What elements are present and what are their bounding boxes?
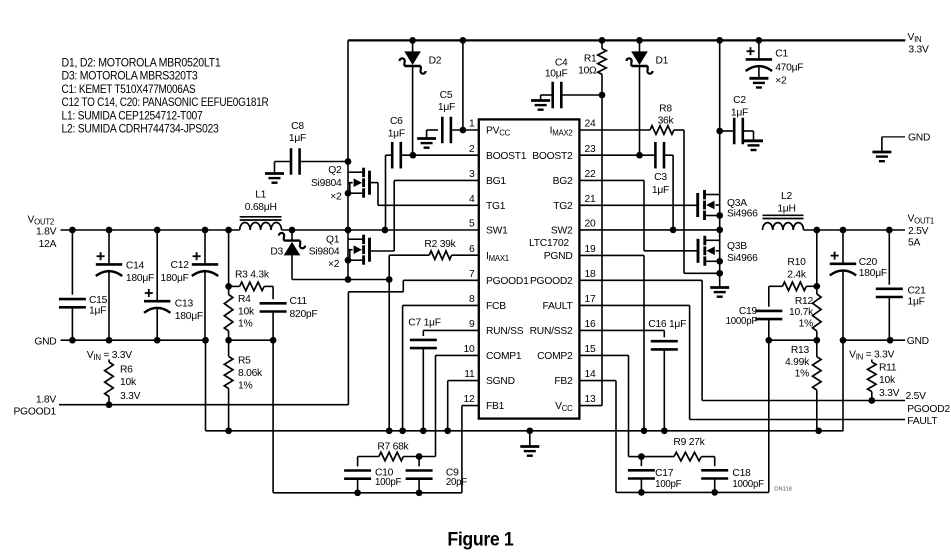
wire pin3 BG1 [394,179,479,181]
svg-text:2: 2 [469,144,475,155]
wire pin20 SW2 [579,227,723,234]
wire FB1 bottom line [273,489,462,496]
svg-text:20pF: 20pF [446,477,467,488]
wire pin15 COMP2 [579,355,628,456]
svg-text:R6: R6 [120,365,133,376]
C13 value label [175,298,203,322]
wire R7 left to C10 [358,457,379,467]
VIN label right [849,350,894,362]
capacitor C12 [192,230,218,340]
svg-text:R7 68k: R7 68k [377,442,409,453]
svg-text:PGOOD1: PGOOD1 [13,406,56,417]
VIN top right labels [908,32,929,56]
svg-text:13: 13 [585,394,596,405]
C1 value label [775,49,803,87]
Q3B body lead [716,250,720,252]
D2 label [429,55,442,66]
parts list note [62,56,269,136]
svg-text:Q1: Q1 [326,235,340,246]
svg-text:R12: R12 [795,296,814,307]
svg-text:8: 8 [469,294,475,305]
C6 value label [388,116,405,140]
ground C8 [265,174,284,183]
PGOOD2 labels [906,391,951,415]
capacitor C8 [291,148,300,175]
svg-text:Q3B: Q3B [727,241,747,252]
Q3B label [727,241,758,264]
svg-text:1μF: 1μF [908,297,925,308]
svg-text:2.5V: 2.5V [906,391,927,402]
resistor R8 36k [650,126,674,135]
svg-text:SGND: SGND [486,376,515,387]
svg-text:3.3V: 3.3V [879,388,900,399]
svg-text:10k: 10k [238,306,255,317]
C8 wire to ground [275,162,292,174]
svg-text:22: 22 [585,169,596,180]
Q3B drain lead [705,230,720,240]
svg-text:L1: SUMIDA CEP1254712-T007: L1: SUMIDA CEP1254712-T007 [62,108,203,122]
svg-text:LTC1702: LTC1702 [529,238,569,249]
svg-text:5A: 5A [908,238,920,249]
svg-text:C1: KEMET T510X477M006AS: C1: KEMET T510X477M006AS [62,82,196,96]
svg-text:C8: C8 [291,121,304,132]
R2 lead left [389,254,429,256]
svg-text:Si9804: Si9804 [309,247,340,258]
svg-text:24: 24 [585,119,596,130]
C7 value label [408,318,440,329]
R9 value label [673,437,705,448]
wire GND right segment [840,337,905,344]
wire FB2 node [765,337,820,344]
svg-text:820pF: 820pF [290,309,318,320]
svg-text:C4: C4 [555,58,568,69]
R6 value label [120,365,141,402]
wire GND stub top right [882,137,905,152]
svg-text:180μF: 180μF [161,273,189,284]
R2 value label [424,239,456,250]
svg-text:1%: 1% [238,381,252,392]
svg-text:C2: C2 [733,95,746,106]
wire Q1 drain up / source down [347,230,349,280]
svg-text:GND: GND [34,337,56,348]
R4 value label [238,294,255,330]
svg-text:2.4k: 2.4k [787,269,807,280]
wire C3 right down to SW2 [664,155,673,230]
capacitor C14 [96,230,122,340]
svg-text:FAULT: FAULT [907,416,938,427]
resistor R9 27k [641,452,714,461]
svg-text:3.3V: 3.3V [120,391,141,402]
wire GND right drop to bottom ground [842,340,844,431]
svg-text:TG2: TG2 [553,201,573,212]
wire Q1 source ground line [292,276,393,283]
wire VOUT2 rail [61,229,240,231]
R12 value label [789,296,814,330]
svg-text:PGOOD2: PGOOD2 [530,276,573,287]
svg-text:1μF: 1μF [731,108,748,119]
svg-text:GND: GND [907,336,929,347]
svg-text:D3: MOTOROLA MBRS320T3: D3: MOTOROLA MBRS320T3 [62,69,198,83]
wire pin4 TG1 [378,204,479,206]
svg-text:10Ω: 10Ω [578,66,597,77]
node SW1 dots [289,227,389,234]
wire BG1 down to Q1 gate [369,180,394,251]
node bottom ground dots [526,427,822,434]
svg-text:R13: R13 [791,345,810,356]
svg-text:C5: C5 [440,90,453,101]
GND top right label [908,133,930,144]
D3 label [270,247,283,258]
ground C2 [744,141,763,150]
wire VCC vertical [601,95,603,406]
resistor R11 10k [868,360,877,401]
C5 value label [438,90,455,113]
wire R2 down to ground line [386,255,393,434]
svg-text:PGND: PGND [544,251,573,262]
svg-text:COMP1: COMP1 [486,351,522,362]
svg-text:C21: C21 [908,285,927,296]
svg-text:12A: 12A [39,239,57,250]
transistor Q3B Si4966 [698,236,715,266]
GND left label [34,337,56,348]
C18 value label [732,468,764,490]
capacitor C18 [701,457,728,493]
svg-text:C6: C6 [390,116,403,127]
wire TG1 to Q2 gate [370,183,379,206]
ground top right [872,152,891,161]
node PGOOD1 left labels [13,395,56,418]
capacitor C7 [410,340,437,348]
wire PVCC up to rail [462,40,464,130]
wire pin7 PGOOD1 [403,279,479,281]
C12 value label [161,260,190,284]
svg-text:17: 17 [585,294,596,305]
wire pin17 FAULT [579,305,689,419]
Q3A source lead [705,212,724,219]
svg-text:Si4966: Si4966 [727,209,758,220]
wire pin9 RUN/SS [423,330,479,336]
L2 value label [777,191,795,214]
svg-text:L1: L1 [255,190,266,201]
R3 value label [235,269,270,280]
C8 value label [289,121,306,144]
capacitor C5 [442,117,451,144]
svg-text:FB1: FB1 [486,401,505,412]
svg-text:1.8V: 1.8V [36,395,57,406]
svg-text:C18: C18 [732,468,751,479]
wire pin14 FB2 [579,381,616,493]
wire pin24 IMAX2 [579,129,650,131]
C9 value label [446,468,467,488]
resistor R4 10k [224,286,233,340]
Q2 body lead [348,183,353,194]
wire pin2 BOOST1 [401,152,479,159]
svg-text:C3: C3 [654,172,667,183]
wire pin19 PGND [579,255,644,430]
wire C4 left to ground [541,95,553,101]
inductor L2 [763,215,804,230]
Q2 drain lead [348,171,364,173]
node FB1 wire [225,337,276,344]
svg-text:RUN/SS2: RUN/SS2 [530,326,573,337]
Q1 drain lead [348,238,364,240]
svg-text:SW2: SW2 [551,226,573,237]
wire pin23 BOOST2 [579,152,655,159]
FAULT label [907,416,938,427]
Q3B source lead [705,258,723,265]
capacitor C4 [553,82,562,109]
svg-text:3: 3 [469,169,475,180]
svg-text:FCB: FCB [486,301,506,312]
R10 value label [787,257,807,280]
DN118 note [774,487,792,493]
C11 value label [290,296,318,320]
wire VIN drop to Q3A [716,40,723,230]
svg-text:100pF: 100pF [375,477,402,488]
svg-text:Figure 1: Figure 1 [447,529,513,551]
C14 value label [126,260,154,284]
VOUT2 labels [28,215,57,251]
wire COMP1 comp node [416,453,436,460]
resistor R13 4.99k [813,340,822,431]
svg-text:4.99k: 4.99k [785,357,810,368]
diode D1 [626,40,652,155]
svg-text:0.68μH: 0.68μH [245,202,277,213]
svg-text:1.8V: 1.8V [36,227,57,238]
svg-text:14: 14 [585,369,596,380]
svg-text:D3: D3 [270,247,283,258]
svg-text:×2: ×2 [330,192,342,203]
capacitor C2 [720,118,743,145]
svg-text:4: 4 [469,194,475,205]
svg-text:1μF: 1μF [289,133,306,144]
svg-text:C16 1μF: C16 1μF [648,319,686,330]
wire C5 to ground [427,130,438,139]
svg-text:36k: 36k [658,115,675,126]
svg-text:9: 9 [469,319,475,330]
resistor R3 4.3k [229,282,274,291]
svg-text:180μF: 180μF [859,268,887,279]
Q1 source lead [345,257,364,264]
svg-text:C20: C20 [859,257,878,268]
svg-text:5: 5 [469,219,475,230]
svg-text:1μF: 1μF [89,305,106,316]
ground C5 [417,139,436,148]
C15 value label [89,295,108,316]
VIN label left [87,350,132,362]
svg-text:10.7k: 10.7k [789,307,814,318]
Figure 1 caption [447,529,513,551]
R7 value label [377,442,409,453]
wire FAULT line [690,419,905,421]
svg-text:R3 4.3k: R3 4.3k [235,269,270,280]
svg-text:16: 16 [585,319,596,330]
svg-text:470μF: 470μF [775,63,803,74]
transistor Q1 Si9804 [354,235,370,265]
wire C2 right to ground [743,131,754,141]
svg-text:R4: R4 [238,294,251,305]
diode D2 [400,40,426,155]
svg-text:R2 39k: R2 39k [424,239,456,250]
capacitor C6 [392,142,401,169]
svg-text:VOUT1: VOUT1 [908,213,934,225]
Q1 body lead [348,250,353,261]
wire pin13 VCC [579,405,602,407]
resistor R7 68k [379,452,419,461]
wire pin18 PGOOD2 [579,280,702,400]
wire pin6 IMAX1 [452,254,479,256]
svg-text:3.3V: 3.3V [908,45,929,56]
svg-text:R11: R11 [879,362,897,373]
U1 pin names and pin numbers [464,119,596,413]
svg-text:R5: R5 [238,356,251,367]
wire VOUT1 rail [804,227,906,234]
op-amp U1 LTC1702 IC body [479,119,580,418]
R1 value label [578,53,597,76]
Q3A body lead [715,204,719,206]
svg-text:12: 12 [464,394,475,405]
VOUT1 labels [908,213,934,248]
resistor R5 8.06k [224,340,233,434]
svg-text:RUN/SS: RUN/SS [486,326,524,337]
svg-text:BG1: BG1 [486,176,506,187]
svg-text:18: 18 [585,269,596,280]
wire PGOOD1 jog [348,280,403,404]
Q3A label [727,198,758,220]
wire VIN rail drop to Q2 drain [347,40,349,230]
svg-text:100pF: 100pF [655,479,682,490]
capacitor C15 [59,230,86,340]
C19 value label [726,306,758,327]
svg-text:C17: C17 [655,468,674,479]
capacitor C21 [876,230,903,340]
wire FB1 drop [272,340,274,493]
svg-text:D1, D2: MOTOROLA MBR0520LT1: D1, D2: MOTOROLA MBR0520LT1 [62,56,221,70]
svg-text:R1: R1 [584,53,597,64]
capacitor C20 180uF [830,230,856,340]
svg-text:IMAX2: IMAX2 [550,126,573,138]
svg-text:8.06k: 8.06k [238,368,263,379]
diode D3 [279,230,305,280]
node VOUT2 rail dots [69,227,232,234]
wire GND left rail [61,337,209,344]
GND right label [907,336,929,347]
svg-text:R10: R10 [787,257,806,268]
capacitor C3 [655,142,664,169]
svg-text:11: 11 [464,369,475,380]
svg-text:BG2: BG2 [553,176,573,187]
C4 value label [545,58,568,80]
svg-text:1%: 1% [795,369,809,380]
R11 value label [879,362,900,399]
capacitor C9 [406,457,433,493]
svg-text:10k: 10k [879,375,896,386]
wire pin16 RUN/SS2 [579,330,664,337]
svg-text:10k: 10k [120,377,137,388]
svg-text:19: 19 [585,244,596,255]
transistor Q3A Si4966 [698,190,715,220]
svg-text:180μF: 180μF [126,273,154,284]
wire PGOOD2 line [702,397,905,404]
svg-text:D1: D1 [656,56,669,67]
svg-text:SW1: SW1 [486,226,508,237]
wire pin10 COMP1 [436,355,479,456]
C16 value label [648,319,686,330]
ground C1 [749,78,768,87]
capacitor C13 [144,230,170,340]
svg-text:Q2: Q2 [328,165,342,176]
svg-text:PVCC: PVCC [486,126,511,138]
svg-text:COMP2: COMP2 [537,351,573,362]
svg-text:1μH: 1μH [777,203,795,214]
resistor R1 10ohm [598,40,607,95]
svg-text:1%: 1% [238,319,252,330]
svg-text:×2: ×2 [328,259,340,270]
wire pin11 SGND [444,381,478,435]
svg-text:1μF: 1μF [652,185,669,196]
svg-text:R8: R8 [659,104,672,115]
resistor R6 10k [105,360,114,405]
capacitor C19 [755,286,782,340]
capacitor C10 [344,471,371,493]
svg-text:D2: D2 [429,55,442,66]
wire R8 right down to Q3B source node [674,130,720,273]
node VIN rail junction dots [409,37,762,44]
wire bottom ground line [206,430,844,432]
D1 label [656,56,669,67]
svg-text:FAULT: FAULT [542,301,573,312]
svg-text:C14: C14 [126,260,145,271]
wire VOUT2 sense drop [225,230,232,290]
svg-text:6: 6 [469,244,475,255]
wire VOUT1 drop to R12 [813,230,820,294]
svg-text:BOOST1: BOOST1 [486,151,527,162]
R5 value label [238,356,263,392]
ground Q3B [710,288,729,297]
wire COMP2 comp node [629,453,645,460]
ground symbol below IC [520,431,539,456]
capacitor C17 [628,457,655,493]
svg-text:GND: GND [908,133,930,144]
C10 value label [375,468,402,488]
svg-text:1000pF: 1000pF [732,479,764,490]
svg-text:180μF: 180μF [175,311,203,322]
svg-text:C12 TO C14, C20: PANASONIC EEF: C12 TO C14, C20: PANASONIC EEFUE0G181R [62,95,269,109]
C21 value label [908,285,927,307]
svg-text:PGOOD2: PGOOD2 [907,404,950,415]
wire pin8 FCB to ground [399,305,479,434]
wire FB2 bottom line [616,489,769,496]
wire C4 right to VCC node [561,92,605,99]
svg-text:C1: C1 [775,49,788,60]
transistor Q2 Si9804 [354,168,370,198]
C17 value label [655,468,682,490]
wire pin12 FB1 [462,406,479,493]
svg-text:L2: L2 [781,191,792,202]
wire VIN 3.3V top rail [348,39,905,41]
svg-text:C7 1μF: C7 1μF [408,318,440,329]
svg-text:Si9804: Si9804 [311,178,342,189]
Q2 label [311,165,342,202]
svg-text:1μF: 1μF [438,102,455,113]
svg-text:PGOOD1: PGOOD1 [486,276,529,287]
svg-text:Si4966: Si4966 [727,253,758,264]
svg-text:1%: 1% [799,318,813,329]
capacitor C11 [260,286,287,340]
svg-text:1μF: 1μF [388,129,405,140]
wire Q3B source to ground [716,240,723,287]
svg-text:TG1: TG1 [486,201,506,212]
